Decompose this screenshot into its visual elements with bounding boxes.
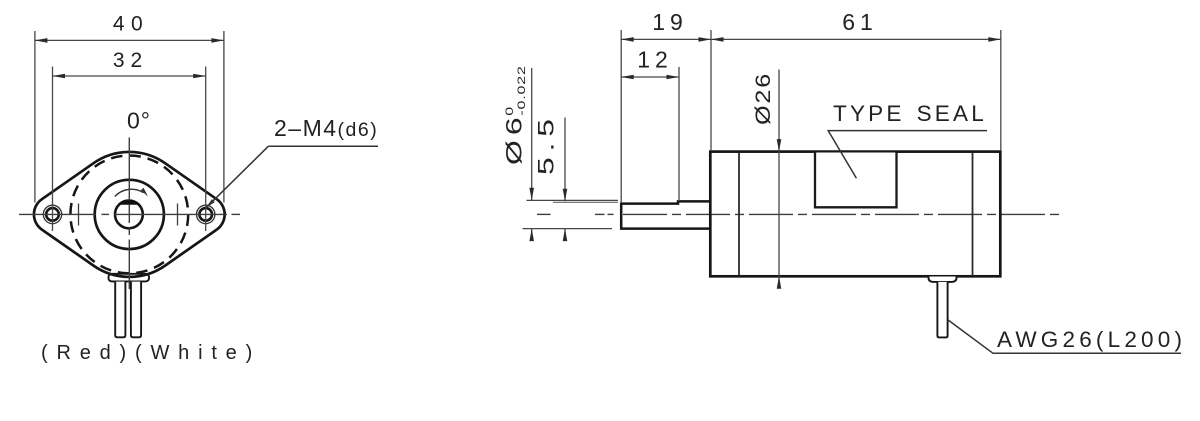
svg-text:32: 32 <box>113 49 148 72</box>
svg-text:12: 12 <box>637 47 673 73</box>
svg-text:(Red)(White): (Red)(White) <box>41 342 261 364</box>
svg-text:5.5: 5.5 <box>533 113 558 175</box>
svg-text:2–M4(d6): 2–M4(d6) <box>274 115 378 141</box>
svg-text:Ø6: Ø6 <box>501 112 526 165</box>
svg-text:AWG26(L200): AWG26(L200) <box>997 327 1186 352</box>
svg-text:0: 0 <box>503 106 515 116</box>
svg-text:Ø26: Ø26 <box>751 72 775 125</box>
svg-text:61: 61 <box>842 9 878 35</box>
svg-text:-0.022: -0.022 <box>515 65 527 115</box>
svg-text:19: 19 <box>652 9 688 35</box>
svg-text:40: 40 <box>113 13 149 36</box>
svg-text:0°: 0° <box>127 108 151 134</box>
